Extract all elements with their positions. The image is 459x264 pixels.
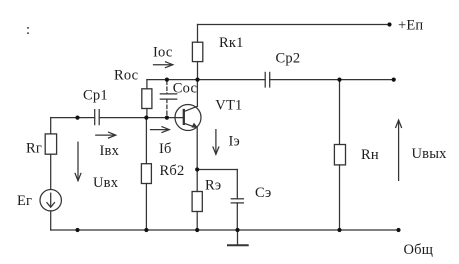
wire collector line right of Cp2 (output) [270, 79, 394, 81]
arrow Ioc [154, 64, 173, 66]
svg-text:VT1: VT1 [215, 98, 242, 114]
node bottom input port dot [75, 228, 79, 232]
svg-text:Сос: Сос [173, 81, 197, 97]
capacitor Cp2 [264, 72, 266, 87]
resistor Rb2 [145, 118, 147, 164]
svg-text:Ср1: Ср1 [83, 88, 108, 104]
svg-text::: : [26, 22, 30, 38]
svg-text:Uвых: Uвых [412, 146, 448, 162]
svg-text:Iос: Iос [153, 45, 172, 61]
capacitor Cp1 [94, 110, 96, 125]
node collector/Rk1 junction [195, 78, 199, 82]
svg-text:+Еп: +Еп [398, 18, 423, 34]
node Ce/ground junction [235, 228, 239, 232]
svg-text:Iэ: Iэ [229, 134, 240, 150]
arrow Ib [151, 129, 169, 131]
node Rn top junction [337, 78, 341, 82]
wire collector line left of Cp2 [147, 79, 265, 81]
svg-text:Iвх: Iвх [100, 143, 120, 159]
resistor Roc [146, 80, 148, 89]
node +Ep terminal dot [387, 22, 391, 26]
node Rn bottom junction [337, 228, 341, 232]
node Re bottom junction [195, 228, 199, 232]
node Coc top junction [165, 78, 169, 82]
node input port dot [75, 116, 79, 120]
wire base line [99, 117, 184, 119]
node Roc/Rb2 base junction [144, 116, 148, 120]
svg-text:Общ: Общ [404, 242, 434, 258]
resistor Rk1 [197, 25, 199, 43]
node output terminal dot [392, 78, 396, 82]
source Eg [40, 190, 61, 211]
node bottom output terminal dot [396, 228, 400, 232]
wire top rail to +Ep [198, 24, 390, 26]
svg-text:Rб2: Rб2 [160, 163, 185, 179]
svg-text:Iб: Iб [159, 141, 172, 157]
resistor Re [196, 170, 198, 192]
node emitter junction [195, 167, 199, 171]
resistor Rg [50, 118, 52, 134]
arrow Ivx [96, 134, 115, 136]
node Coc bottom junction [165, 116, 169, 120]
node Rb2 bottom junction [144, 228, 148, 232]
svg-text:Сэ: Сэ [255, 185, 271, 201]
capacitor Coc (dashed connections) [166, 81, 168, 94]
svg-text:Rэ: Rэ [205, 178, 221, 194]
wire bottom rail [51, 229, 399, 231]
arrow Ie [215, 130, 217, 154]
transistor VT1 [175, 105, 201, 131]
ground [237, 230, 239, 245]
svg-text:Uвх: Uвх [93, 175, 119, 191]
svg-text:Ср2: Ср2 [276, 51, 301, 67]
wire input node to Cp1 [51, 117, 95, 119]
resistor Rn [339, 80, 341, 145]
svg-text:Rг: Rг [26, 141, 42, 157]
wire emitter junction to Ce [197, 169, 237, 171]
svg-text:Rос: Rос [114, 68, 138, 84]
capacitor Ce [236, 170, 238, 199]
arrow Uvyx [398, 121, 400, 181]
svg-text:Rн: Rн [361, 147, 379, 163]
svg-text:Rк1: Rк1 [219, 35, 244, 51]
svg-text:Ег: Ег [17, 193, 32, 209]
arrow Uvx [77, 142, 79, 180]
